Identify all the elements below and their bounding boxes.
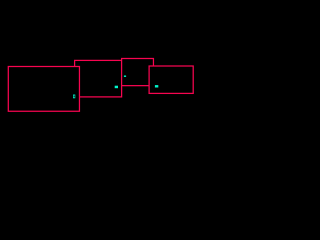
footprint courtyard U4 (right rectangle) (149, 66, 193, 93)
footprint courtyard U2 (middle rectangle) (75, 60, 122, 97)
pad 1 of U1 (through-hole pad outer ring) (73, 95, 75, 99)
pad 1 of U2 (115, 86, 118, 89)
pad 1 of U4 (155, 85, 158, 87)
pad 1 of U3 (124, 76, 126, 77)
canvas background (0, 0, 200, 133)
footprint courtyard U1 (left rectangle) (8, 67, 79, 112)
pad 1 of U1 (drill hole) (74, 95, 75, 97)
footprint courtyard U3 (top-right rectangle) (122, 59, 154, 86)
